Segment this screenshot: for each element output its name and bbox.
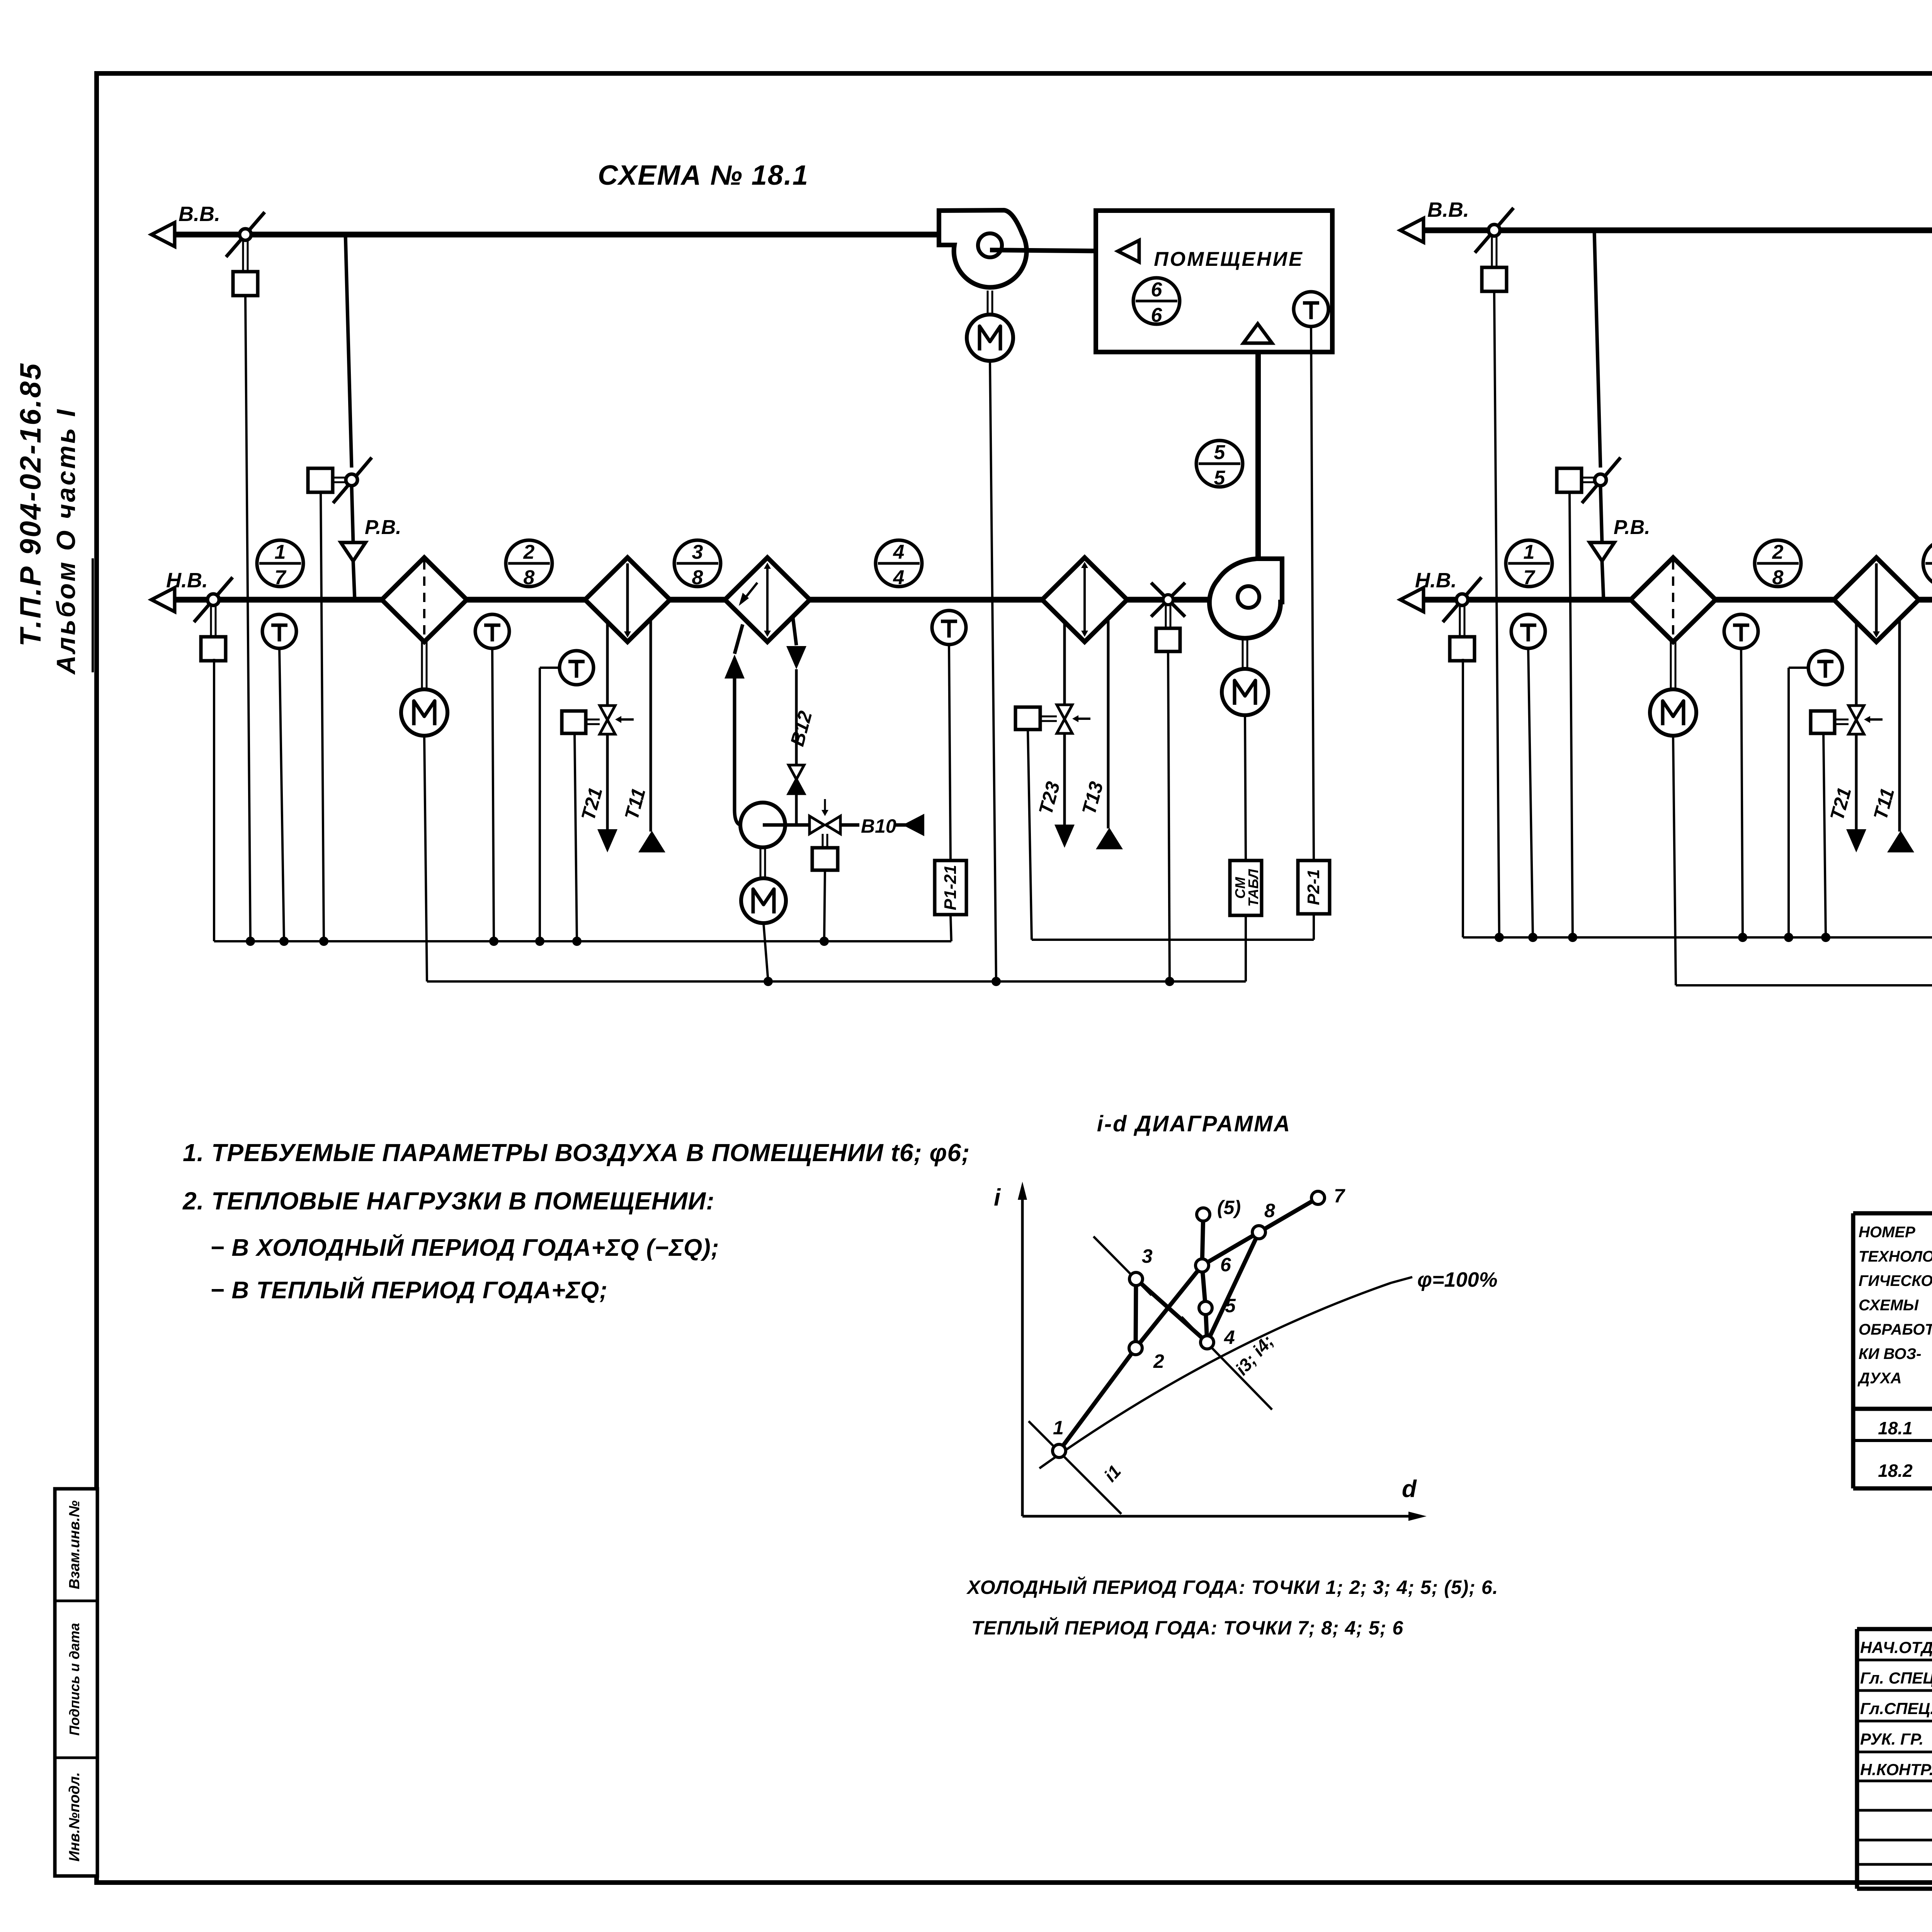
svg-text:− В ТЕПЛЫЙ ПЕРИОД ГОДА+ΣQ;: − В ТЕПЛЫЙ ПЕРИОД ГОДА+ΣQ;: [210, 1276, 608, 1304]
svg-text:7: 7: [1524, 566, 1536, 589]
svg-text:В.В.: В.В.: [1427, 198, 1469, 221]
svg-text:8: 8: [1772, 566, 1784, 589]
svg-text:СХЕМЫ: СХЕМЫ: [1859, 1297, 1919, 1314]
svg-text:3: 3: [1142, 1245, 1153, 1267]
svg-text:18.2: 18.2: [1878, 1461, 1913, 1481]
svg-text:2: 2: [1772, 541, 1784, 563]
svg-text:Т.П.Р 904-02-16.85: Т.П.Р 904-02-16.85: [14, 362, 47, 646]
svg-text:6: 6: [1151, 304, 1163, 327]
svg-text:Альбом О часть I: Альбом О часть I: [51, 408, 81, 675]
svg-text:− В ХОЛОДНЫЙ ПЕРИОД ГОДА+ΣQ (: − В ХОЛОДНЫЙ ПЕРИОД ГОДА+ΣQ (−ΣQ);: [210, 1234, 719, 1261]
svg-text:НАЧ.ОТД.: НАЧ.ОТД.: [1860, 1638, 1932, 1656]
svg-text:ТЕХНОЛО-: ТЕХНОЛО-: [1859, 1248, 1932, 1265]
svg-text:(5): (5): [1217, 1197, 1241, 1218]
svg-text:ДУХА: ДУХА: [1857, 1370, 1902, 1387]
svg-text:6: 6: [1151, 279, 1163, 301]
svg-text:ГИЧЕСКОЙ: ГИЧЕСКОЙ: [1859, 1271, 1932, 1289]
svg-text:Р.В.: Р.В.: [365, 516, 401, 539]
svg-text:РУК. ГР.: РУК. ГР.: [1860, 1730, 1923, 1748]
svg-text:5: 5: [1225, 1295, 1236, 1316]
svg-text:В10: В10: [861, 815, 896, 837]
svg-text:Р1-21: Р1-21: [941, 865, 960, 910]
svg-text:4: 4: [893, 566, 905, 589]
svg-text:Инв.№подл.: Инв.№подл.: [66, 1772, 83, 1861]
svg-text:ХОЛОДНЫЙ ПЕРИОД ГОДА: ТОЧКИ 1;: ХОЛОДНЫЙ ПЕРИОД ГОДА: ТОЧКИ 1; 2; 3; 4; …: [966, 1576, 1498, 1598]
svg-text:ПОМЕЩЕНИЕ: ПОМЕЩЕНИЕ: [1154, 248, 1304, 270]
svg-text:Н.КОНТР.: Н.КОНТР.: [1860, 1760, 1932, 1779]
svg-text:ОБРАБОТ-: ОБРАБОТ-: [1859, 1321, 1932, 1338]
svg-text:d: d: [1402, 1476, 1417, 1502]
svg-text:7: 7: [1334, 1185, 1345, 1207]
svg-text:В.В.: В.В.: [179, 202, 220, 226]
svg-text:1. ТРЕБУЕМЫЕ ПАРАМЕТРЫ ВОЗ: 1. ТРЕБУЕМЫЕ ПАРАМЕТРЫ ВОЗДУХА В ПОМЕЩЕН…: [183, 1139, 970, 1167]
svg-text:Н.В.: Н.В.: [1415, 569, 1457, 592]
svg-text:4: 4: [893, 541, 905, 563]
svg-text:Р.В.: Р.В.: [1614, 516, 1650, 539]
svg-text:Взам.инв.№: Взам.инв.№: [66, 1500, 83, 1589]
svg-text:ТАБЛ: ТАБЛ: [1245, 869, 1261, 907]
svg-text:3: 3: [692, 541, 703, 563]
svg-text:5: 5: [1214, 467, 1226, 489]
svg-text:8: 8: [1264, 1200, 1275, 1221]
svg-text:2: 2: [523, 541, 535, 563]
svg-text:1: 1: [1053, 1417, 1064, 1439]
svg-text:Н.В.: Н.В.: [166, 569, 208, 592]
svg-text:НОМЕР: НОМЕР: [1859, 1224, 1915, 1241]
svg-text:8: 8: [692, 566, 703, 589]
svg-text:2: 2: [1153, 1350, 1164, 1372]
svg-text:2. ТЕПЛОВЫЕ НАГРУЗКИ В ПОМ: 2. ТЕПЛОВЫЕ НАГРУЗКИ В ПОМЕЩЕНИИ:: [182, 1187, 715, 1215]
svg-text:5: 5: [1214, 441, 1226, 464]
svg-text:1: 1: [275, 541, 286, 563]
svg-text:КИ ВОЗ-: КИ ВОЗ-: [1859, 1345, 1922, 1362]
svg-text:18.1: 18.1: [1878, 1418, 1913, 1438]
svg-text:Гл. СПЕЦ.: Гл. СПЕЦ.: [1860, 1669, 1932, 1687]
svg-text:6: 6: [1220, 1254, 1231, 1276]
svg-text:Р2-1: Р2-1: [1304, 869, 1323, 905]
svg-text:7: 7: [275, 566, 287, 589]
svg-text:ТЕПЛЫЙ ПЕРИОД ГОДА: ТОЧКИ 7; 8: ТЕПЛЫЙ ПЕРИОД ГОДА: ТОЧКИ 7; 8; 4; 5; 6: [971, 1617, 1403, 1639]
svg-text:Подпись и дата: Подпись и дата: [66, 1623, 82, 1736]
svg-text:φ=100%: φ=100%: [1417, 1268, 1498, 1291]
svg-text:4: 4: [1224, 1327, 1235, 1348]
svg-text:СХЕМА № 18.1: СХЕМА № 18.1: [598, 160, 809, 191]
svg-text:8: 8: [524, 566, 535, 589]
svg-text:Гл.СПЕЦ.: Гл.СПЕЦ.: [1860, 1699, 1932, 1718]
svg-text:i: i: [994, 1184, 1001, 1211]
svg-text:i-d ДИАГРАММА: i-d ДИАГРАММА: [1097, 1111, 1291, 1136]
svg-text:1: 1: [1524, 541, 1535, 563]
